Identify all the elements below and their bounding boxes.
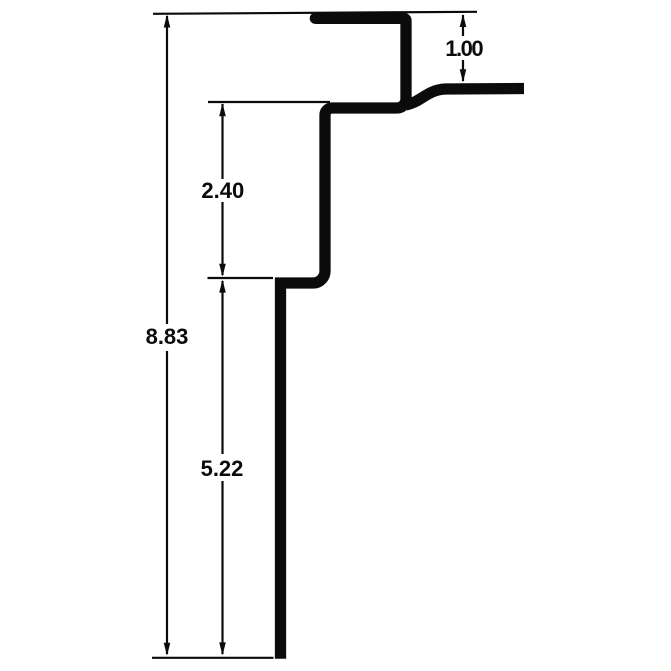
- dimension 8.83 arrows: [164, 15, 171, 28]
- dimension 2.40 arrows: [219, 103, 226, 116]
- dimension 1.00 arrows: [460, 14, 467, 27]
- wire top extension line: [153, 12, 477, 14]
- dimension 5.22 line: [221, 281, 223, 654]
- svg-text:2.40: 2.40: [201, 178, 244, 203]
- dimension 1.00 line: [462, 15, 464, 81]
- svg-text:8.83: 8.83: [146, 324, 189, 349]
- svg-text:5.22: 5.22: [201, 456, 244, 481]
- dimension 5.22 arrows: [219, 280, 226, 293]
- wire bottom extension line: [152, 657, 274, 659]
- profile right flange bar: [406, 89, 524, 106]
- profile top bar rounded left end: [310, 13, 321, 24]
- profile main body (thick cross-section): [281, 18, 407, 658]
- wire lower extension line (2.40/5.22 boundary): [208, 277, 274, 279]
- svg-text:1.00: 1.00: [445, 36, 483, 61]
- dimension 2.40 line: [221, 104, 223, 275]
- wire middle extension line (top of 2.40): [208, 101, 330, 103]
- dimension 8.83 line: [166, 16, 168, 654]
